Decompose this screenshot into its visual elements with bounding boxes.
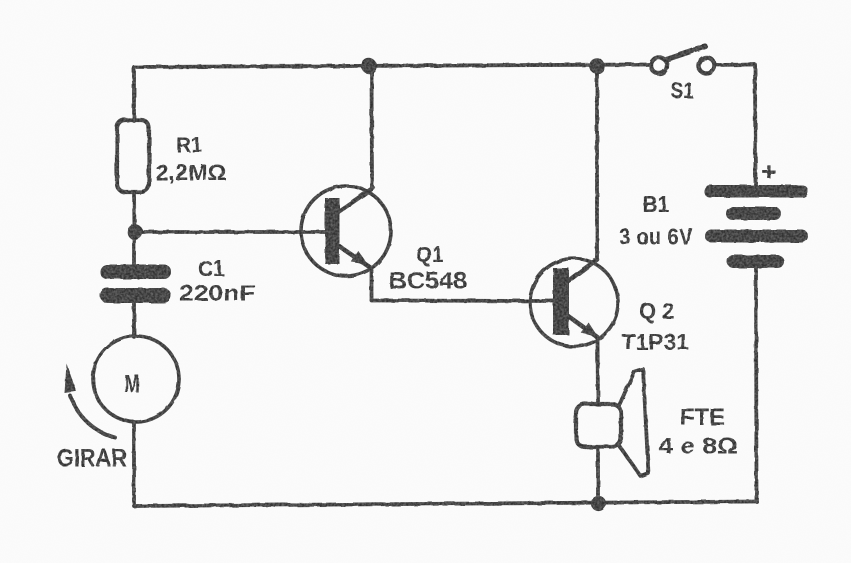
wire left drop to R1 (132, 67, 136, 121)
wire motor to bottom rail (132, 422, 136, 505)
wire speaker to bottom rail (596, 447, 600, 503)
transistor Q1 (301, 186, 391, 276)
wire Q2 emitter to speaker (596, 339, 600, 404)
svg-text:Q1: Q1 (416, 242, 444, 267)
svg-text:3 ou 6V: 3 ou 6V (619, 224, 693, 250)
node junction bottom of speaker (591, 496, 606, 511)
transistor Q2 (530, 259, 618, 347)
wire Q2 collector vertical (595, 66, 599, 259)
svg-text:BC548: BC548 (389, 268, 468, 295)
wire Q1 emitter to Q2 base (372, 299, 555, 303)
wire node to C1 (132, 232, 136, 266)
wire bottom rail (134, 502, 757, 507)
svg-text:T1P31: T1P31 (622, 330, 690, 355)
node junction at Q2 collector (589, 58, 605, 74)
svg-text:S1: S1 (671, 78, 694, 104)
node junction R1 C1 Q1-base (127, 224, 143, 240)
svg-text:2,2MΩ: 2,2MΩ (156, 160, 227, 185)
motor M (93, 336, 179, 422)
speaker FTE (576, 369, 649, 477)
battery B1 plates (704, 185, 808, 268)
wire right vertical to battery (753, 65, 757, 187)
resistor R1 (117, 120, 149, 192)
wire switch to right corner (715, 63, 755, 67)
wire Q1 collector vertical (370, 66, 374, 189)
svg-text:+: + (761, 156, 776, 186)
wire Q1 emitter down (370, 270, 374, 300)
wire node to Q1 base (135, 230, 326, 234)
node junction at Q1 collector (361, 58, 377, 74)
switch S1 (651, 47, 715, 74)
svg-text:220nF: 220nF (179, 281, 256, 306)
svg-text:GIRAR: GIRAR (57, 445, 127, 473)
capacitor C1 plates (100, 265, 171, 304)
svg-text:FTE: FTE (680, 404, 725, 431)
wire battery to bottom rail (754, 268, 758, 502)
svg-text:Q 2: Q 2 (639, 299, 675, 324)
wire top rail (134, 65, 650, 68)
svg-text:4 e 8Ω: 4 e 8Ω (659, 434, 739, 459)
girar rotation arrow (65, 364, 116, 438)
svg-text:R1: R1 (176, 133, 203, 157)
svg-text:M: M (124, 371, 140, 399)
svg-text:C1: C1 (198, 256, 225, 281)
svg-text:B1: B1 (643, 191, 670, 217)
wire C1 to motor (132, 303, 136, 337)
wire R1 to node (132, 192, 136, 232)
